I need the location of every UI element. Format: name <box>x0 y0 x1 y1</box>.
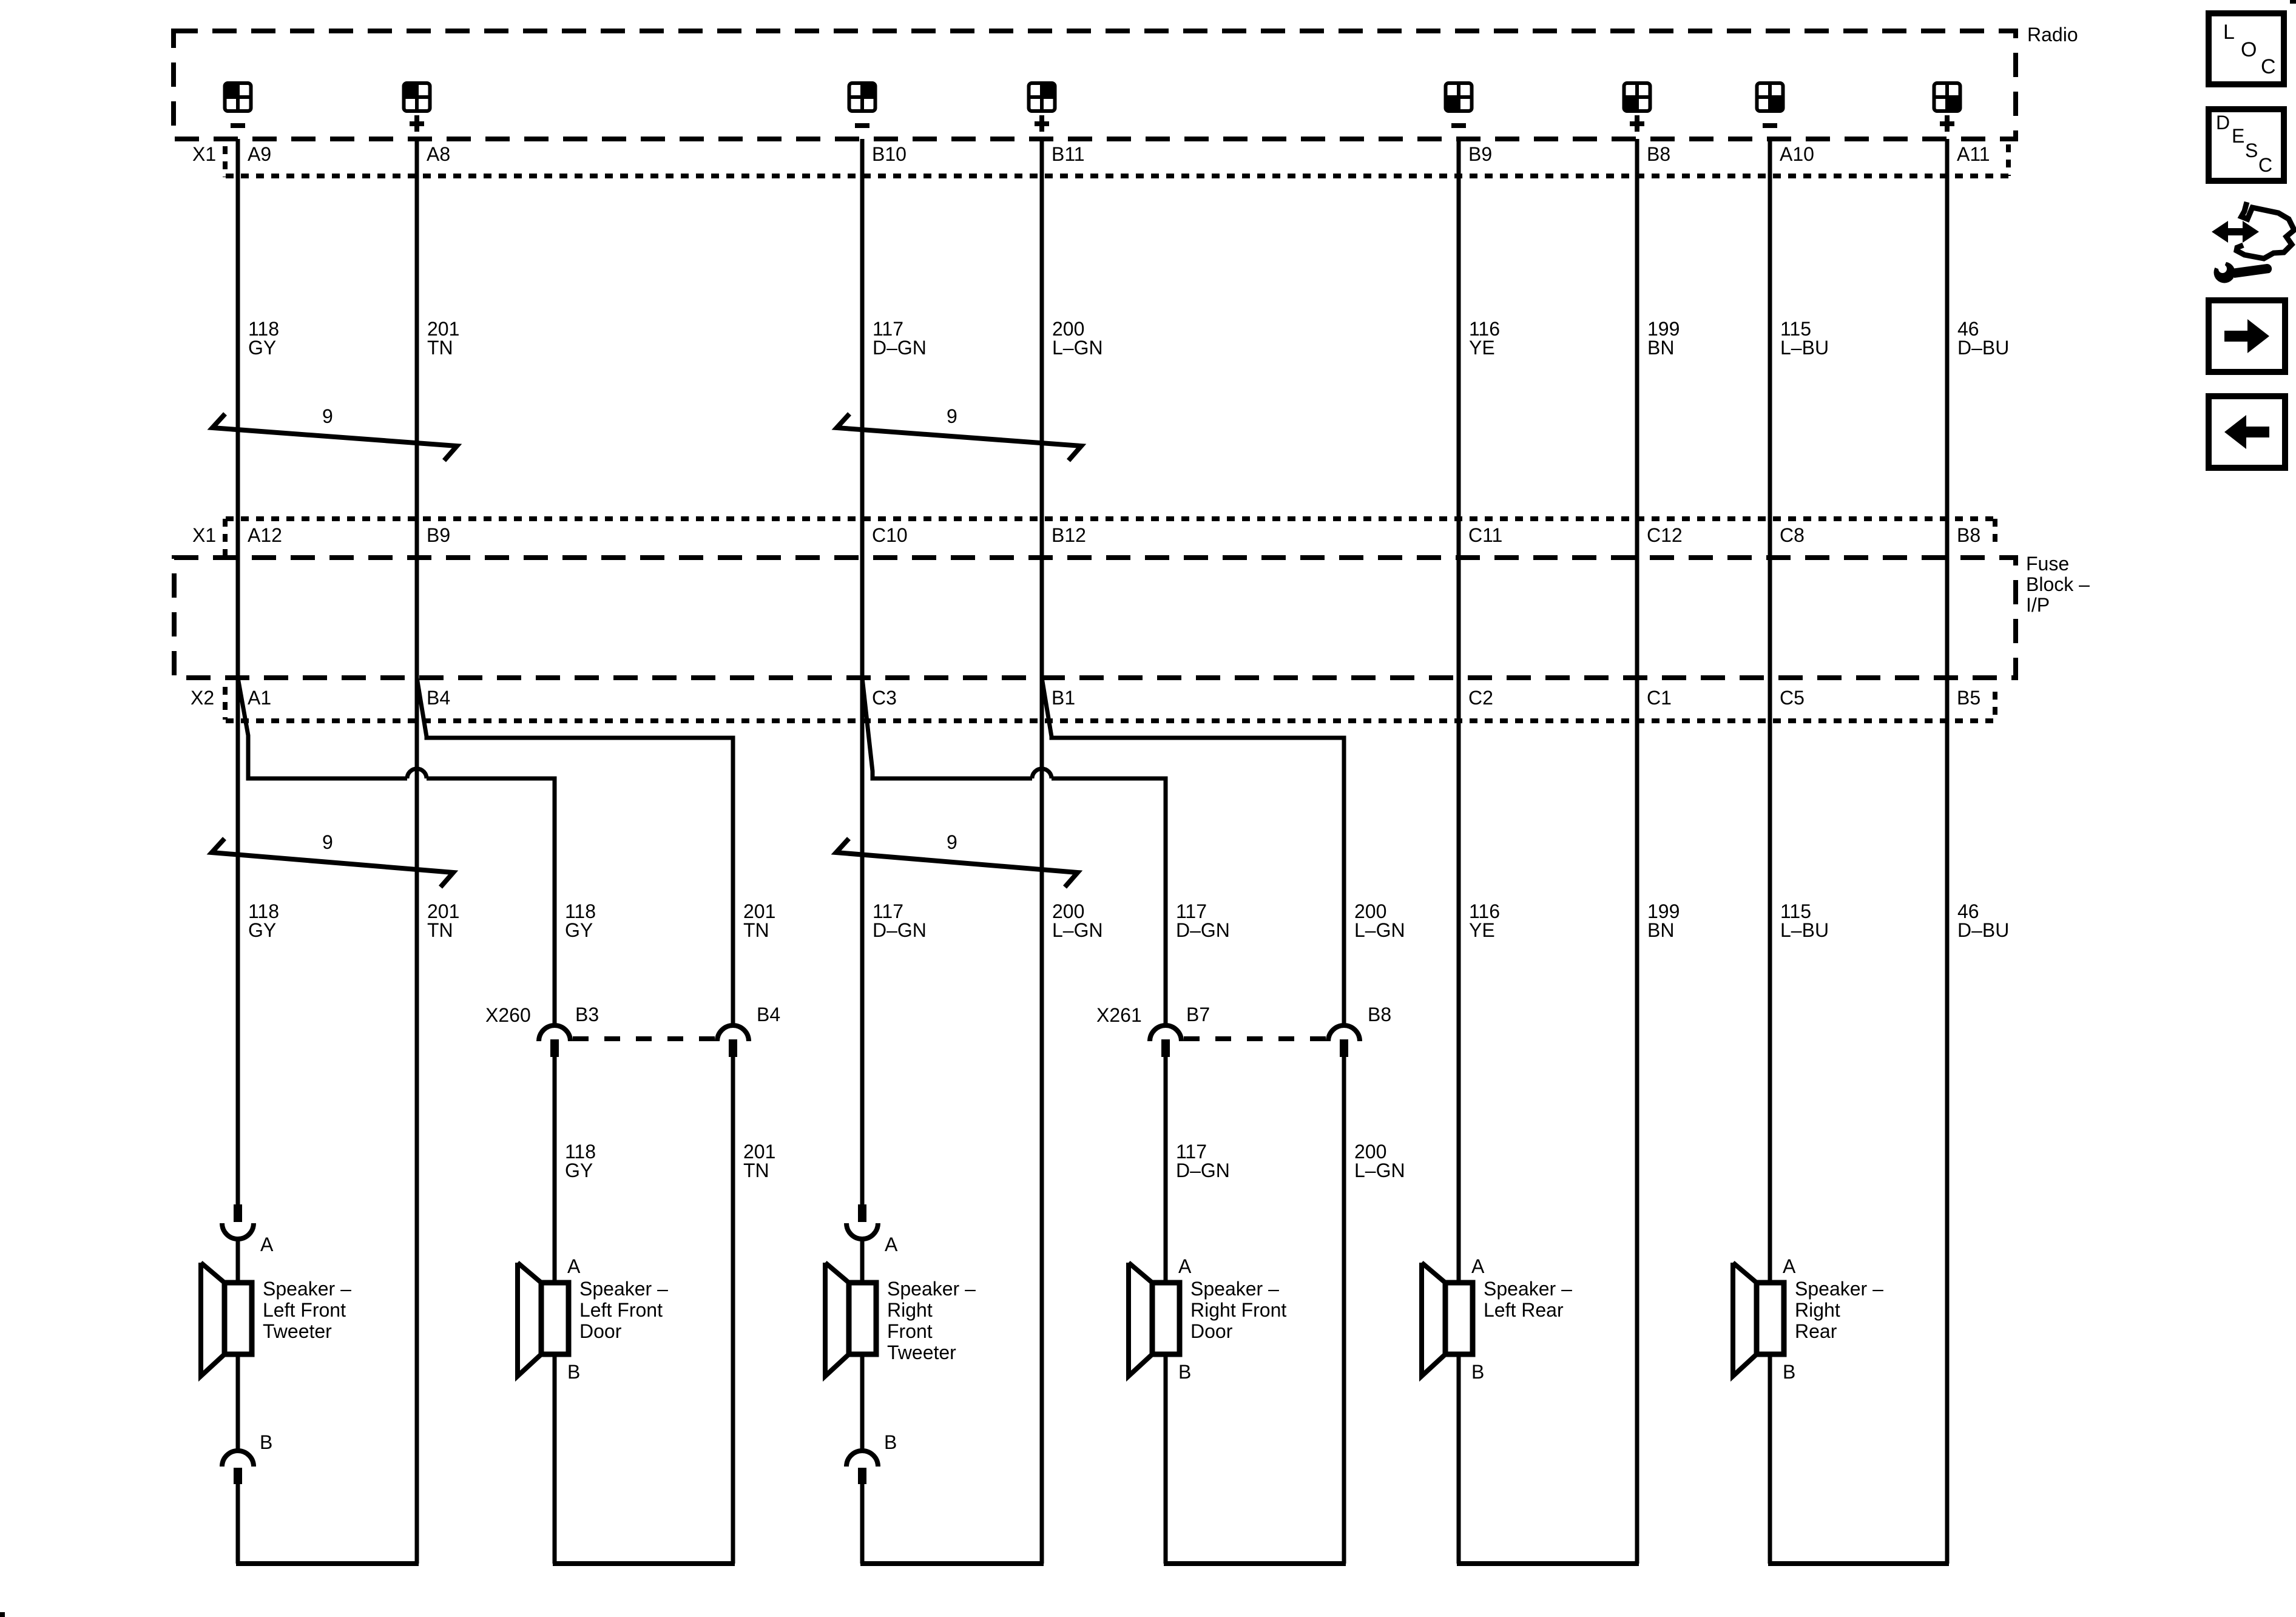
inline connector X260 pin B3 female arc <box>539 1025 570 1041</box>
svg-text:Rear: Rear <box>1795 1320 1837 1342</box>
svg-text:D–GN: D–GN <box>1176 919 1230 941</box>
svg-text:X261: X261 <box>1096 1004 1142 1026</box>
svg-text:B: B <box>567 1361 580 1383</box>
svg-text:B5: B5 <box>1957 687 1980 709</box>
svg-text:B: B <box>1471 1361 1484 1383</box>
return wire bottom segment right rear <box>1768 1561 1949 1566</box>
svg-text:Tweeter: Tweeter <box>263 1320 332 1342</box>
svg-text:Left Front: Left Front <box>263 1299 346 1321</box>
return wire bottom segment left rear <box>1457 1561 1639 1566</box>
svg-text:TN: TN <box>743 1160 769 1181</box>
svg-text:L–BU: L–BU <box>1780 919 1829 941</box>
speaker left front tweeter pin B inline connector female arc <box>222 1451 254 1467</box>
radio pin A9 connector symbol <box>225 83 251 111</box>
svg-text:B7: B7 <box>1186 1004 1210 1025</box>
radio pin B10 connector symbol <box>849 83 876 111</box>
svg-text:X2: X2 <box>191 687 214 709</box>
speaker right front tweeter cone <box>825 1263 849 1376</box>
return wire bottom segment left front tweeter <box>236 1561 419 1566</box>
svg-text:D–GN: D–GN <box>1176 1160 1230 1181</box>
wire 117 D&#8211;GN from radio B10 down (upper segment) <box>860 139 865 1204</box>
svg-text:B11: B11 <box>1052 143 1085 165</box>
svg-text:E: E <box>2232 125 2244 147</box>
svg-text:D: D <box>2216 112 2230 133</box>
svg-text:B8: B8 <box>1368 1004 1391 1025</box>
svg-text:D–GN: D–GN <box>873 337 927 359</box>
svg-text:C3: C3 <box>872 687 897 709</box>
wire 116 YE from radio B9 down (upper segment) <box>1457 139 1461 1283</box>
wire 199 BN from radio B8 down (upper segment) <box>1635 139 1639 1564</box>
speaker left front tweeter pin A inline connector male blade <box>234 1204 242 1222</box>
speaker left rear cone <box>1422 1263 1445 1376</box>
wire 200 L&#8211;GN from radio B11 down (upper segment) <box>1040 139 1044 1564</box>
splice branch wire 201 TN from B4 to X260 B4 <box>417 678 733 1025</box>
svg-text:A11: A11 <box>1957 143 1990 165</box>
wire label 116 YE (middle) <box>1469 900 1500 941</box>
speaker left front tweeter cone <box>201 1263 225 1376</box>
svg-text:B: B <box>1178 1361 1191 1383</box>
connector service icon double arrow <box>2212 221 2259 243</box>
svg-text:Fuse: Fuse <box>2026 553 2069 575</box>
fuse block X1 right dotted stub <box>1993 519 1997 549</box>
radio pin B9 connector symbol <box>1446 83 1472 111</box>
previous page arrow box <box>2209 396 2285 468</box>
svg-text:S: S <box>2245 140 2258 161</box>
radio pin B8 polarity sign plus <box>1630 115 1644 132</box>
svg-text:A: A <box>885 1234 898 1255</box>
svg-text:Block –: Block – <box>2026 573 2090 595</box>
radio pin A11 connector symbol <box>1934 83 1960 111</box>
inline connector X261 dashed link <box>1184 1036 1326 1041</box>
splice branch wire 200 L-GN from B1 to X261 B8 <box>1042 678 1344 1025</box>
svg-text:O: O <box>2241 38 2257 61</box>
svg-text:Tweeter: Tweeter <box>887 1342 956 1363</box>
twisted-pair symbol lower left (118/201 pair) <box>212 839 453 887</box>
inline connector X260 dashed link <box>573 1036 715 1041</box>
svg-text:B: B <box>260 1431 272 1453</box>
svg-text:Speaker –: Speaker – <box>579 1278 668 1300</box>
svg-text:9: 9 <box>947 831 957 853</box>
wire 115 L&#8211;BU from radio A10 down (upper segment) <box>1768 139 1772 1283</box>
svg-text:A8: A8 <box>427 143 450 165</box>
wire 201 TN from radio A8 down (upper segment) <box>415 139 419 1564</box>
svg-text:C10: C10 <box>872 524 908 546</box>
connector service icon hand outline <box>2237 202 2294 258</box>
return wire bottom segment right front tweeter <box>860 1561 1044 1566</box>
svg-text:A: A <box>1471 1255 1485 1277</box>
inline connector X261 pin B8 male blade <box>1340 1039 1348 1057</box>
svg-text:X1: X1 <box>192 143 216 165</box>
svg-text:C5: C5 <box>1780 687 1805 709</box>
speaker right front tweeter pin A wire <box>860 1239 865 1283</box>
wire label 117 D&#8211;GN (upper) <box>873 318 927 359</box>
svg-text:C: C <box>2258 154 2272 176</box>
speaker left rear label <box>1484 1278 1572 1321</box>
speaker left front tweeter pin A inline connector female arc <box>222 1223 254 1239</box>
speaker left front door label <box>579 1278 668 1342</box>
fuse block X2 right dotted stub <box>1993 692 1997 721</box>
fuse block X1 left dotted stub <box>223 519 228 555</box>
wire label 199 BN (middle) <box>1647 900 1680 941</box>
wire label 118 GY (lower) <box>565 1141 596 1181</box>
svg-text:X1: X1 <box>192 524 216 546</box>
svg-text:Speaker –: Speaker – <box>1795 1278 1883 1300</box>
DESC letters <box>2216 112 2272 176</box>
svg-text:A12: A12 <box>248 524 282 546</box>
svg-text:B: B <box>884 1431 897 1453</box>
radio pin B11 connector symbol <box>1029 83 1055 111</box>
svg-text:B: B <box>1783 1361 1795 1383</box>
splice branch wire 118 GY from A1 to X260 B3 <box>238 678 407 778</box>
radio pin A10 polarity sign minus <box>1763 123 1777 128</box>
next page arrow box <box>2209 300 2285 372</box>
Radio component dashed box <box>174 31 2016 139</box>
splice branch wire 117 D-GN from C3 to X261 B7 <box>862 678 1032 778</box>
wire label 118 GY (middle) <box>248 900 279 941</box>
svg-text:B4: B4 <box>757 1004 780 1025</box>
inline connector X260 pin B4 male blade <box>729 1039 737 1057</box>
radio pin B10 polarity sign minus <box>855 123 869 128</box>
svg-text:B12: B12 <box>1052 524 1086 546</box>
wire label 200 L&#8211;GN (middle) <box>1354 900 1405 941</box>
svg-text:Front: Front <box>887 1320 933 1342</box>
speaker left front tweeter pin A wire <box>236 1239 240 1283</box>
wire label 46 D&#8211;BU (upper) <box>1957 318 2009 359</box>
svg-text:Speaker –: Speaker – <box>263 1278 351 1300</box>
wire label 115 L&#8211;BU (middle) <box>1780 900 1829 941</box>
return wire bottom segment left front door <box>553 1561 735 1566</box>
svg-text:X260: X260 <box>485 1004 531 1026</box>
wire label 200 L&#8211;GN (lower) <box>1354 1141 1405 1181</box>
speaker right rear pin B wire <box>1768 1354 1772 1564</box>
wire label 200 L&#8211;GN (upper) <box>1052 318 1103 359</box>
wire label 46 D&#8211;BU (middle) <box>1957 900 2009 941</box>
radio connector row left dotted stub <box>223 146 228 177</box>
wire label 201 TN (middle) <box>743 900 775 941</box>
svg-text:C11: C11 <box>1468 524 1502 546</box>
svg-text:D–BU: D–BU <box>1957 337 2009 359</box>
svg-text:9: 9 <box>947 405 957 427</box>
twisted-pair symbol upper right (117/200 pair) <box>837 414 1081 461</box>
svg-text:A1: A1 <box>248 687 271 709</box>
page corner mark top-right <box>2290 0 2296 4</box>
twisted-pair symbol lower right (117/200 pair) <box>836 839 1078 887</box>
svg-text:Speaker –: Speaker – <box>1484 1278 1572 1300</box>
wire label 201 TN (upper) <box>427 318 459 359</box>
radio pin B8 connector symbol <box>1624 83 1650 111</box>
svg-text:A: A <box>260 1234 274 1255</box>
speaker left front tweeter label <box>263 1278 351 1342</box>
speaker right rear cone <box>1733 1263 1757 1376</box>
svg-text:9: 9 <box>322 831 333 853</box>
svg-text:B9: B9 <box>427 524 450 546</box>
inline connector X260 pin B3 male blade <box>550 1039 559 1057</box>
speaker right rear label <box>1795 1278 1883 1342</box>
radio pin A11 polarity sign plus <box>1940 115 1954 132</box>
inline connector X261 pin B8 female arc <box>1328 1025 1360 1041</box>
svg-text:B8: B8 <box>1957 524 1980 546</box>
svg-text:B8: B8 <box>1647 143 1670 165</box>
svg-text:B1: B1 <box>1052 687 1075 709</box>
inline connector X261 pin B7 female arc <box>1150 1025 1181 1041</box>
wire label 201 TN (lower) <box>743 1141 775 1181</box>
wire label 117 D&#8211;GN (middle) <box>1176 900 1230 941</box>
svg-text:B4: B4 <box>427 687 450 709</box>
speaker left front tweeter pin B wire <box>236 1354 240 1451</box>
radio pin A8 polarity sign plus <box>410 115 424 132</box>
page corner dot bottom-left <box>0 1612 5 1617</box>
svg-text:C2: C2 <box>1468 687 1493 709</box>
fuse block X2 left dotted stub <box>223 687 228 720</box>
svg-text:GY: GY <box>565 919 593 941</box>
svg-text:C8: C8 <box>1780 524 1805 546</box>
radio pin A10 connector symbol <box>1757 83 1783 111</box>
wire label 199 BN (upper) <box>1647 318 1680 359</box>
speaker left rear pin B wire <box>1457 1354 1461 1564</box>
radio connector row right dotted stub <box>2006 144 2011 176</box>
wire label 117 D&#8211;GN (middle) <box>873 900 927 941</box>
svg-text:C: C <box>2261 55 2276 78</box>
svg-text:L–GN: L–GN <box>1354 1160 1405 1181</box>
svg-text:I/P: I/P <box>2026 594 2050 616</box>
svg-text:YE: YE <box>1469 919 1495 941</box>
wire 46 D&#8211;BU from radio A11 down (upper segment) <box>1945 139 1950 1564</box>
svg-text:A9: A9 <box>248 143 271 165</box>
connector service icon wrench <box>2213 255 2272 283</box>
next page arrow <box>2224 319 2269 353</box>
svg-text:TN: TN <box>743 919 769 941</box>
svg-text:TN: TN <box>427 919 453 941</box>
radio pin A8 connector symbol <box>404 83 430 111</box>
speaker left front door magnet body <box>541 1283 569 1354</box>
svg-text:Left Front: Left Front <box>579 1299 663 1321</box>
speaker left front tweeter pin B inline connector male blade <box>234 1468 242 1484</box>
splice branch wire 117 D-GN continues to X261 B7 <box>1052 778 1166 1025</box>
speaker left front tweeter magnet body <box>225 1283 252 1354</box>
wire label 118 GY (upper) <box>248 318 279 359</box>
previous page arrow <box>2224 415 2269 449</box>
wire 117 D&#8211;GN below connector pin B7 <box>1164 1057 1168 1283</box>
svg-text:B9: B9 <box>1468 143 1492 165</box>
svg-text:Right: Right <box>887 1299 933 1321</box>
wire label 116 YE (upper) <box>1469 318 1500 359</box>
fuse block I/P dashed box <box>174 558 2016 678</box>
speaker right front door magnet body <box>1152 1283 1180 1354</box>
svg-text:C12: C12 <box>1647 524 1683 546</box>
wire 200 L&#8211;GN below connector pin B8 <box>1342 1057 1346 1564</box>
speaker right front tweeter label <box>887 1278 976 1363</box>
svg-text:B3: B3 <box>575 1004 599 1025</box>
inline connector X260 pin B4 female arc <box>717 1025 749 1041</box>
speaker right front tweeter pin B wire lower <box>860 1484 865 1564</box>
speaker right rear magnet body <box>1757 1283 1784 1354</box>
wire 118 GY below connector pin B3 <box>553 1057 557 1283</box>
svg-text:D–GN: D–GN <box>873 919 927 941</box>
radio pin A9 polarity sign minus <box>231 123 245 128</box>
svg-text:L–GN: L–GN <box>1052 919 1103 941</box>
splice branch wire 118 GY continues to X260 B3 <box>427 778 555 1025</box>
svg-text:L–GN: L–GN <box>1052 337 1103 359</box>
svg-text:TN: TN <box>427 337 453 359</box>
svg-text:L: L <box>2223 21 2235 44</box>
LOC reference box <box>2209 13 2284 84</box>
wire label 115 L&#8211;BU (upper) <box>1780 318 1829 359</box>
DESC reference box <box>2209 109 2284 181</box>
svg-text:A10: A10 <box>1780 143 1814 165</box>
wire label 117 D&#8211;GN (lower) <box>1176 1141 1230 1181</box>
speaker right front tweeter pin A inline connector male blade <box>858 1204 866 1222</box>
svg-text:Left Rear: Left Rear <box>1484 1299 1564 1321</box>
speaker left front door cone <box>518 1263 541 1376</box>
svg-text:L–GN: L–GN <box>1354 919 1405 941</box>
svg-text:9: 9 <box>322 405 333 427</box>
speaker left front tweeter pin B wire lower <box>236 1484 240 1564</box>
svg-text:Right: Right <box>1795 1299 1840 1321</box>
speaker right front tweeter pin A inline connector female arc <box>846 1223 878 1239</box>
svg-text:B10: B10 <box>872 143 907 165</box>
svg-text:Door: Door <box>579 1320 622 1342</box>
svg-text:C1: C1 <box>1647 687 1672 709</box>
return wire bottom segment right front door <box>1164 1561 1346 1566</box>
wire 201 TN below connector pin B4 <box>731 1057 735 1564</box>
svg-text:L–BU: L–BU <box>1780 337 1829 359</box>
fuse block X2 bottom dotted line <box>226 718 1996 723</box>
speaker left front door pin B wire <box>553 1354 557 1564</box>
speaker right front tweeter pin B inline connector female arc <box>846 1451 878 1467</box>
svg-text:A: A <box>1178 1255 1192 1277</box>
svg-text:GY: GY <box>248 337 276 359</box>
speaker right front tweeter pin B inline connector male blade <box>858 1468 866 1484</box>
radio pin B11 polarity sign plus <box>1035 115 1049 132</box>
svg-text:BN: BN <box>1647 337 1674 359</box>
speaker right front tweeter pin B wire <box>860 1354 865 1451</box>
speaker right front door cone <box>1129 1263 1152 1376</box>
fuse block label <box>2026 553 2090 616</box>
wire label 200 L&#8211;GN (middle) <box>1052 900 1103 941</box>
svg-text:GY: GY <box>565 1160 593 1181</box>
speaker left rear magnet body <box>1445 1283 1473 1354</box>
svg-text:A: A <box>1783 1255 1796 1277</box>
wire 118 GY from radio A9 down (upper segment) <box>236 139 240 1204</box>
svg-text:A: A <box>567 1255 581 1277</box>
svg-text:Right Front: Right Front <box>1190 1299 1286 1321</box>
svg-text:D–BU: D–BU <box>1957 919 2009 941</box>
svg-text:Speaker –: Speaker – <box>1190 1278 1279 1300</box>
twisted-pair symbol upper left (118/201 pair) <box>212 414 457 461</box>
LOC letters <box>2223 21 2276 78</box>
wire crossover hop over 201 TN wire <box>407 769 427 778</box>
radio connector row bottom dotted line <box>226 174 2008 178</box>
svg-text:YE: YE <box>1469 337 1495 359</box>
speaker right front door label <box>1190 1278 1286 1342</box>
inline connector X261 pin B7 male blade <box>1161 1039 1170 1057</box>
speaker right front door pin B wire <box>1164 1354 1168 1564</box>
svg-text:Speaker –: Speaker – <box>887 1278 976 1300</box>
svg-text:BN: BN <box>1647 919 1674 941</box>
svg-text:Door: Door <box>1190 1320 1233 1342</box>
svg-text:Radio: Radio <box>2027 24 2078 46</box>
radio pin B9 polarity sign minus <box>1451 123 1466 128</box>
svg-text:GY: GY <box>248 919 276 941</box>
fuse block X1 row top dotted line <box>226 516 1996 521</box>
wire label 118 GY (middle) <box>565 900 596 941</box>
speaker right front tweeter magnet body <box>849 1283 876 1354</box>
wire crossover hop over 200 L-GN wire <box>1032 769 1052 778</box>
wire label 201 TN (middle) <box>427 900 459 941</box>
